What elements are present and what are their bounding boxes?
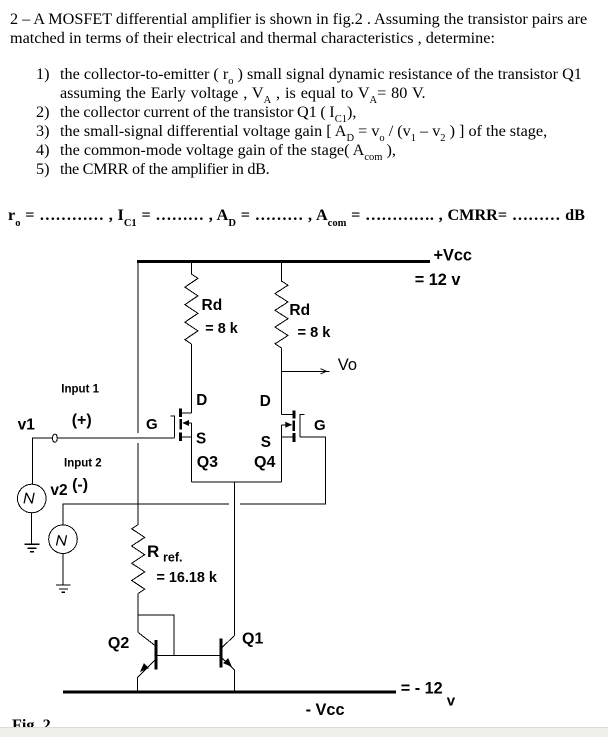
wire Q4 drain from Rd xyxy=(281,348,283,414)
svg-text:Q1: Q1 xyxy=(242,630,263,647)
wire v2 source to ground xyxy=(62,554,64,585)
ground v2 xyxy=(56,585,71,592)
transistor Q4 (MOSFET) xyxy=(282,410,305,442)
AC source symbol v1 xyxy=(24,493,34,504)
wire v1 to Q3 gate xyxy=(57,437,174,439)
resistor Rd right xyxy=(275,260,288,348)
wire Q4 source to tail xyxy=(281,425,283,482)
wire v2 run to Q4 gate (right of crossing) xyxy=(240,437,325,504)
svg-text:G: G xyxy=(146,416,158,433)
svg-text:- Vcc: - Vcc xyxy=(306,701,345,719)
svg-text:Input 1: Input 1 xyxy=(61,383,99,395)
svg-text:Q4: Q4 xyxy=(254,454,275,471)
node v1 input (open circle) xyxy=(53,434,58,442)
svg-text:Q2: Q2 xyxy=(108,635,129,652)
svg-text:Input 2: Input 2 xyxy=(64,457,102,469)
svg-text:Rd: Rd xyxy=(202,297,223,314)
wire Vo tap with arrow xyxy=(282,369,330,374)
problem statement paragraph xyxy=(10,10,587,29)
wire shared base rail xyxy=(157,654,219,656)
svg-text:(+): (+) xyxy=(72,412,92,429)
wire Q1 emitter to rail xyxy=(233,670,235,692)
svg-text:Vo: Vo xyxy=(338,356,357,374)
wire -Vcc bottom rail xyxy=(63,691,396,694)
svg-text:v: v xyxy=(447,692,456,709)
wire Rref bottom xyxy=(137,593,139,615)
AC source v2 xyxy=(49,525,78,554)
svg-text:Rd: Rd xyxy=(289,302,310,319)
wire Rref to Q2 collector xyxy=(138,615,155,645)
svg-text:(-): (-) xyxy=(72,477,88,494)
wire Q3 source to tail xyxy=(190,423,192,482)
svg-text:= - 12: = - 12 xyxy=(401,679,443,697)
svg-text:= 8 k: = 8 k xyxy=(205,321,238,337)
wire Q3 drain from Rd xyxy=(190,344,192,413)
wire Rref node to bases xyxy=(138,615,174,655)
svg-text:G: G xyxy=(314,417,326,434)
svg-text:v2: v2 xyxy=(50,482,67,499)
svg-text:R: R xyxy=(147,542,159,561)
svg-text:S: S xyxy=(261,434,271,451)
wire left drop from rail (upper part, hops v1 wire) xyxy=(137,261,139,433)
wire tail bottom xyxy=(191,481,281,483)
svg-text:S: S xyxy=(196,431,206,448)
figure caption Fig. 2 xyxy=(12,716,51,735)
transistor Q2 (BJT diode-connected) xyxy=(138,640,158,678)
AC source v1 xyxy=(18,484,47,513)
svg-text:D: D xyxy=(260,393,271,410)
transistor Q3 (MOSFET) xyxy=(170,409,191,441)
transistor Q1 (BJT) xyxy=(220,636,235,670)
svg-text:Q3: Q3 xyxy=(197,454,218,471)
svg-text:+Vcc: +Vcc xyxy=(434,246,472,264)
wire v1 node to AC source xyxy=(32,438,52,484)
wire left drop continues to Rref xyxy=(137,443,139,525)
wire tail down to Q1 collector xyxy=(233,482,235,636)
wire +Vcc top rail xyxy=(137,260,430,263)
wire v2 source up to horizontal run (left of crossing) xyxy=(63,504,229,525)
wire v1 source to ground xyxy=(31,513,33,544)
bottom gray band xyxy=(0,727,608,737)
AC source symbol v2 xyxy=(57,535,67,545)
svg-text:= 12 v: = 12 v xyxy=(415,271,461,289)
wire Q2 emitter to rail xyxy=(137,677,139,692)
ground v1 xyxy=(25,544,40,551)
svg-text:v1: v1 xyxy=(18,417,36,434)
answer blanks line xyxy=(8,206,585,225)
resistor Rref xyxy=(132,525,145,594)
svg-text:ref.: ref. xyxy=(163,550,182,564)
svg-text:D: D xyxy=(196,392,207,409)
resistor Rd left xyxy=(185,260,198,344)
svg-text:= 8 k: = 8 k xyxy=(298,325,332,341)
svg-text:= 16.18 k: = 16.18 k xyxy=(157,570,218,586)
